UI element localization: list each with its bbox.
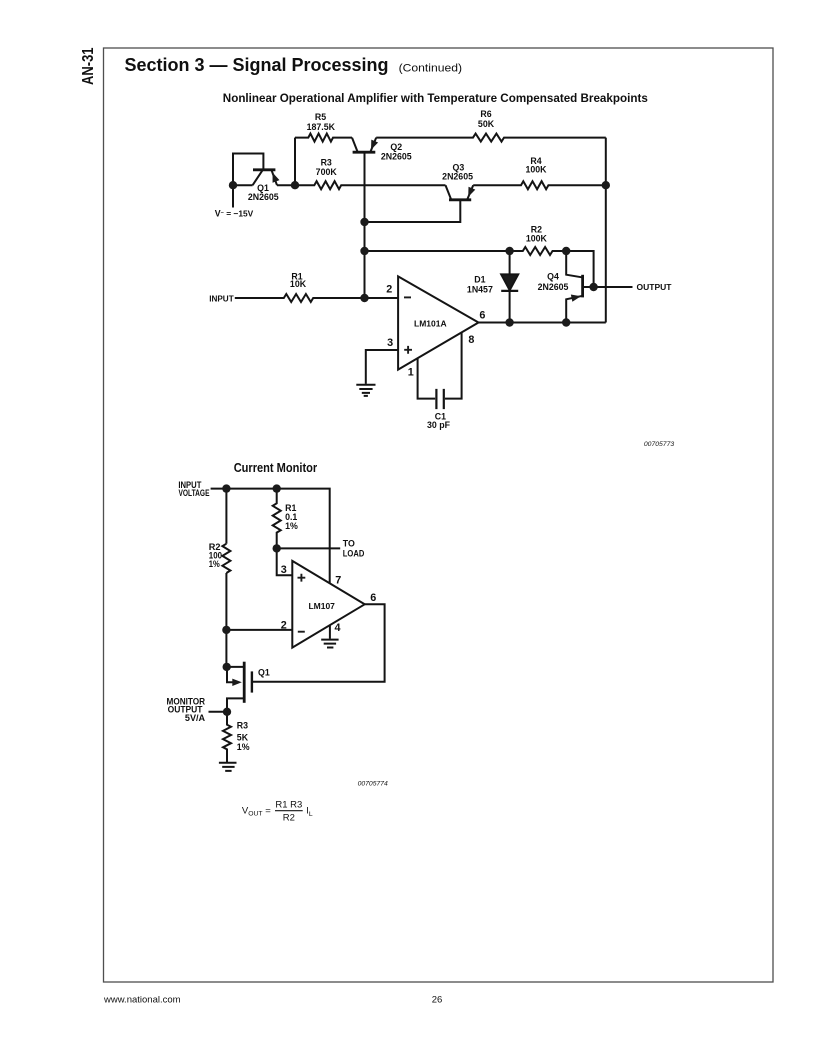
svg-text:Current Monitor: Current Monitor (234, 461, 318, 475)
wire to OUTPUT (594, 286, 633, 288)
svg-text:5K: 5K (237, 732, 249, 742)
wire source lead (226, 666, 244, 668)
resistor R6 (376, 134, 606, 142)
transistor Q4 (581, 275, 584, 298)
svg-text:IL: IL (306, 806, 313, 819)
node R2 right (562, 247, 570, 255)
wire substrate arrow lead (227, 667, 236, 682)
node D1 top (505, 247, 513, 255)
svg-text:700K: 700K (316, 167, 338, 177)
svg-text:V− = −15V: V− = −15V (215, 209, 254, 219)
svg-text:2N2605: 2N2605 (538, 282, 569, 292)
svg-text:INPUT: INPUT (209, 294, 234, 304)
svg-text:100K: 100K (526, 234, 548, 244)
wire pin 1 to C1 (418, 358, 436, 398)
svg-text:R1 R3: R1 R3 (275, 800, 302, 811)
wire pin 2 (226, 629, 292, 631)
wire pin 2 (365, 297, 399, 299)
svg-text:187.5K: 187.5K (307, 122, 336, 132)
svg-text:www.national.com: www.national.com (103, 994, 181, 1005)
svg-text:50K: 50K (478, 119, 495, 129)
svg-text:00705774: 00705774 (358, 780, 388, 787)
minus sign pin2 (404, 296, 411, 298)
svg-text:7: 7 (335, 574, 341, 586)
wire to load (277, 547, 341, 549)
ground at pin 3 (356, 385, 375, 396)
svg-text:26: 26 (432, 994, 443, 1005)
wire V- stub (232, 185, 234, 207)
svg-text:00705773: 00705773 (644, 441, 674, 448)
op-amp U1 LM101A (398, 276, 478, 369)
transistor Q3 (449, 198, 471, 201)
wire node B up to R5 (294, 138, 296, 186)
svg-text:4: 4 (335, 622, 341, 634)
transistor Q1 mosfet gate bar (251, 671, 253, 692)
svg-text:D1: D1 (474, 275, 485, 285)
svg-text:LM101A: LM101A (414, 319, 447, 329)
minus sign pin2 (298, 631, 305, 633)
node pin2 summing junction (360, 294, 368, 302)
ground at pin 4 (321, 640, 338, 648)
wire R2 right to Q4 base (566, 251, 593, 287)
svg-text:8: 8 (468, 334, 474, 346)
resistor R2 (365, 247, 567, 255)
node pin 2 (222, 626, 230, 634)
wire pin 3 to ground (366, 350, 398, 384)
svg-text:AN-31: AN-31 (80, 47, 97, 85)
resistor R3 (295, 181, 446, 189)
node R2 left line junction (360, 247, 368, 255)
svg-text:2N2605: 2N2605 (381, 151, 412, 161)
node A (229, 181, 237, 189)
svg-text:2N2605: 2N2605 (248, 192, 279, 202)
node R4 R6 junction (602, 181, 610, 189)
svg-text:30 pF: 30 pF (427, 420, 451, 430)
formula Vout (242, 800, 313, 824)
svg-text:1N457: 1N457 (467, 285, 493, 295)
svg-text:1: 1 (408, 366, 414, 378)
wire Q1 emitter to node B (277, 184, 295, 186)
svg-text:Q1: Q1 (258, 667, 270, 677)
svg-text:6: 6 (370, 592, 376, 604)
node D1 bottom (505, 318, 513, 326)
svg-text:2: 2 (281, 620, 287, 632)
page border frame (104, 48, 774, 982)
wire node A to Q1 collector (233, 184, 253, 186)
wire right vertical (605, 138, 607, 323)
svg-text:VOUT =: VOUT = (242, 806, 271, 818)
svg-text:R5: R5 (315, 112, 326, 122)
wire pin 3 (277, 548, 293, 575)
svg-text:R3: R3 (237, 721, 248, 731)
resistor R3 vertical (223, 712, 231, 762)
arrow mosfet substrate (232, 679, 242, 686)
ground below R3 (219, 763, 237, 771)
svg-text:1%: 1% (209, 559, 220, 569)
resistor R1 (235, 294, 365, 302)
node Q3 base junction (360, 218, 368, 226)
wire C1 to pin 8 (445, 332, 462, 398)
wire left vertical lower (225, 573, 227, 630)
wire left vertical upper (225, 489, 227, 544)
wire pin 6 to gate (253, 604, 385, 682)
arrow Q4 emitter (571, 293, 582, 302)
plus sign pin3 (404, 346, 412, 354)
svg-text:R6: R6 (480, 109, 491, 119)
wire monitor output (209, 711, 228, 713)
wire pin 4 stub (329, 626, 331, 639)
wire drain lead (227, 698, 244, 711)
node input voltage left (222, 484, 230, 492)
svg-text:6: 6 (479, 309, 485, 321)
arrow Q2 emitter (368, 140, 379, 152)
node monitor output (223, 708, 231, 716)
plus sign pin3 (298, 574, 306, 582)
svg-text:1%: 1% (285, 521, 298, 531)
transistor Q1 mosfet channel bar (243, 662, 246, 703)
svg-text:2: 2 (386, 284, 392, 296)
svg-text:R2: R2 (283, 813, 295, 824)
svg-text:LOAD: LOAD (343, 549, 365, 559)
svg-text:1%: 1% (237, 742, 250, 752)
svg-text:2N2605: 2N2605 (442, 172, 473, 182)
resistor R5 (295, 134, 352, 142)
svg-text:3: 3 (387, 337, 393, 349)
transistor Q1 (253, 168, 275, 171)
node Q4 emitter bottom (562, 318, 570, 326)
arrow Q1 emitter (269, 171, 279, 183)
op-amp U2 LM107 (292, 561, 364, 648)
node Q4 base (589, 283, 597, 291)
svg-text:VOLTAGE: VOLTAGE (179, 488, 210, 498)
wire pin2 node down to mosfet (225, 630, 227, 667)
node R1 top (273, 484, 281, 492)
svg-text:LM107: LM107 (308, 601, 335, 611)
resistor R1 vertical (273, 489, 281, 549)
wire input voltage top line (211, 489, 330, 584)
wire node A to Q1 base loop (233, 154, 263, 186)
capacitor C1 (436, 389, 443, 409)
svg-text:OUTPUT: OUTPUT (637, 282, 673, 292)
resistor R2 vertical (222, 544, 230, 573)
node to-load junction (273, 544, 281, 552)
transistor Q2 (353, 151, 376, 154)
svg-text:(Continued): (Continued) (399, 63, 463, 75)
svg-text:3: 3 (281, 564, 287, 576)
wire main vertical (364, 152, 366, 298)
node B (291, 181, 299, 189)
svg-text:Section 3 — Signal Processing: Section 3 — Signal Processing (125, 54, 389, 75)
diode D1 (509, 251, 511, 274)
wire op-amp output line (479, 322, 606, 324)
svg-text:5V/A: 5V/A (185, 713, 206, 723)
svg-text:Q4: Q4 (547, 271, 559, 281)
node source junction (223, 663, 231, 671)
svg-text:TO: TO (343, 539, 355, 549)
svg-text:Nonlinear Operational Amplifie: Nonlinear Operational Amplifier with Tem… (223, 91, 648, 105)
svg-text:100K: 100K (525, 165, 547, 175)
arrow Q3 emitter (465, 187, 476, 199)
resistor R4 (473, 181, 606, 189)
svg-text:10K: 10K (290, 279, 307, 289)
